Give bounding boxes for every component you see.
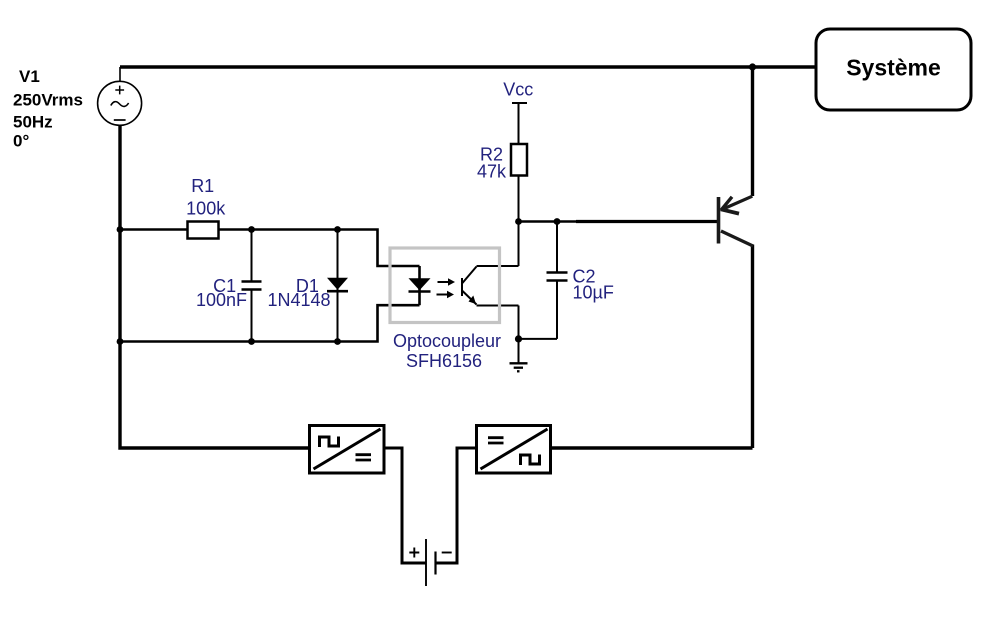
svg-text:100nF: 100nF xyxy=(196,290,247,310)
svg-text:R1: R1 xyxy=(191,176,214,196)
svg-text:V1: V1 xyxy=(19,67,40,86)
svg-text:Vcc: Vcc xyxy=(503,80,533,100)
svg-text:Optocoupleur: Optocoupleur xyxy=(393,331,501,351)
svg-text:100k: 100k xyxy=(186,199,226,219)
svg-text:SFH6156: SFH6156 xyxy=(406,351,482,371)
svg-text:47k: 47k xyxy=(477,161,507,181)
svg-text:1N4148: 1N4148 xyxy=(267,290,330,310)
svg-text:50Hz: 50Hz xyxy=(13,113,53,132)
svg-text:10µF: 10µF xyxy=(573,282,614,302)
svg-text:Système: Système xyxy=(846,55,941,81)
svg-text:0°: 0° xyxy=(13,132,29,151)
svg-text:250Vrms: 250Vrms xyxy=(13,91,83,110)
